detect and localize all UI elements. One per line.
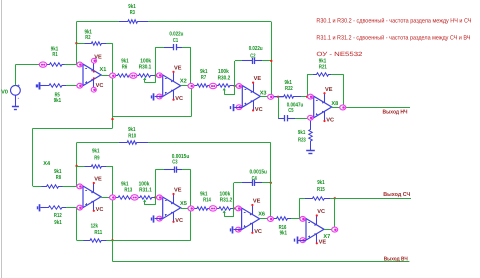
svg-text:X6: X6 — [258, 212, 265, 218]
svg-text:VC: VC — [255, 107, 263, 113]
svg-text:R22: R22 — [285, 85, 293, 92]
svg-text:VC: VC — [254, 229, 262, 235]
svg-text:VC: VC — [175, 218, 183, 224]
svg-text:V0: V0 — [1, 89, 8, 95]
svg-text:9k1: 9k1 — [121, 57, 129, 64]
svg-text:R1: R1 — [52, 52, 58, 58]
svg-text:9k1: 9k1 — [121, 180, 129, 187]
svg-text:100k: 100k — [140, 57, 151, 64]
svg-text:C1: C1 — [173, 37, 179, 44]
svg-text:Выход НЧ: Выход НЧ — [383, 110, 408, 116]
svg-text:9k1: 9k1 — [285, 79, 293, 86]
svg-text:VC: VC — [96, 207, 104, 213]
svg-text:Выход ВЧ: Выход ВЧ — [384, 257, 408, 263]
svg-text:VE: VE — [325, 87, 333, 93]
svg-text:R2: R2 — [85, 34, 90, 41]
svg-text:X2: X2 — [180, 79, 187, 85]
svg-text:9k1: 9k1 — [128, 3, 136, 10]
svg-text:X5: X5 — [180, 201, 187, 207]
svg-text:9k1: 9k1 — [54, 219, 62, 226]
svg-text:9k1: 9k1 — [200, 190, 208, 197]
svg-text:R30.2: R30.2 — [218, 75, 231, 82]
svg-text:9k1: 9k1 — [200, 68, 208, 75]
svg-text:R30.1: R30.1 — [139, 63, 152, 70]
svg-text:9k1: 9k1 — [54, 97, 62, 104]
svg-text:R11: R11 — [94, 230, 102, 236]
svg-text:R10: R10 — [128, 133, 136, 140]
svg-text:Выход СЧ: Выход СЧ — [383, 192, 410, 198]
svg-text:0.022u: 0.022u — [249, 45, 263, 52]
svg-text:VC: VC — [326, 117, 334, 123]
svg-text:100k: 100k — [139, 180, 150, 187]
svg-text:9k1: 9k1 — [317, 179, 325, 186]
svg-text:VC: VC — [175, 96, 183, 102]
svg-text:9k1: 9k1 — [128, 126, 136, 133]
svg-text:C4: C4 — [252, 175, 258, 182]
svg-text:VC: VC — [317, 209, 325, 215]
svg-text:X8: X8 — [331, 101, 338, 107]
svg-text:R31.2: R31.2 — [220, 197, 233, 204]
svg-text:12k: 12k — [91, 223, 99, 230]
svg-text:R31.1 и R31.2 - сдвоенный - ча: R31.1 и R31.2 - сдвоенный - частота разд… — [316, 35, 470, 42]
svg-text:R12: R12 — [54, 212, 62, 219]
svg-text:R23: R23 — [298, 137, 306, 144]
svg-text:+: + — [17, 83, 20, 88]
svg-text:100k: 100k — [220, 190, 231, 197]
svg-text:C3: C3 — [172, 159, 178, 166]
svg-text:VE: VE — [174, 66, 182, 72]
svg-text:C5: C5 — [288, 107, 294, 114]
svg-text:R30.1 и R30.2 - сдвоенный - ча: R30.1 и R30.2 - сдвоенный - частота разд… — [316, 18, 471, 25]
svg-text:R6: R6 — [122, 63, 128, 70]
svg-text:R15: R15 — [317, 187, 325, 193]
svg-text:C2: C2 — [250, 52, 255, 59]
svg-text:R21: R21 — [319, 63, 327, 70]
svg-text:X3: X3 — [260, 91, 267, 97]
svg-text:VE: VE — [254, 76, 262, 82]
svg-text:9k1: 9k1 — [280, 230, 288, 237]
svg-text:R7: R7 — [201, 75, 206, 81]
svg-text:9k1: 9k1 — [298, 129, 306, 136]
svg-text:100k: 100k — [218, 68, 229, 75]
svg-text:VE: VE — [174, 188, 182, 194]
svg-text:R3: R3 — [130, 9, 136, 16]
svg-text:VE: VE — [253, 199, 261, 205]
svg-text:R8: R8 — [56, 174, 62, 181]
svg-text:VE: VE — [94, 177, 102, 183]
svg-text:R9: R9 — [94, 154, 100, 161]
svg-text:R13: R13 — [124, 187, 132, 194]
svg-text:X7: X7 — [323, 234, 330, 240]
svg-text:X4: X4 — [43, 161, 51, 167]
svg-text:R14: R14 — [203, 198, 211, 204]
svg-text:VE: VE — [94, 54, 102, 60]
svg-text:VC: VC — [96, 83, 104, 89]
svg-text:R31.1: R31.1 — [139, 187, 152, 194]
svg-text:0.0015u: 0.0015u — [249, 169, 267, 176]
svg-text:9k1: 9k1 — [92, 148, 100, 155]
svg-text:ОУ - NE5532: ОУ - NE5532 — [316, 51, 363, 58]
svg-text:9k1: 9k1 — [54, 168, 62, 175]
svg-text:VE: VE — [319, 240, 327, 246]
svg-text:X1: X1 — [100, 67, 107, 73]
svg-text:0.022u: 0.022u — [169, 31, 183, 38]
